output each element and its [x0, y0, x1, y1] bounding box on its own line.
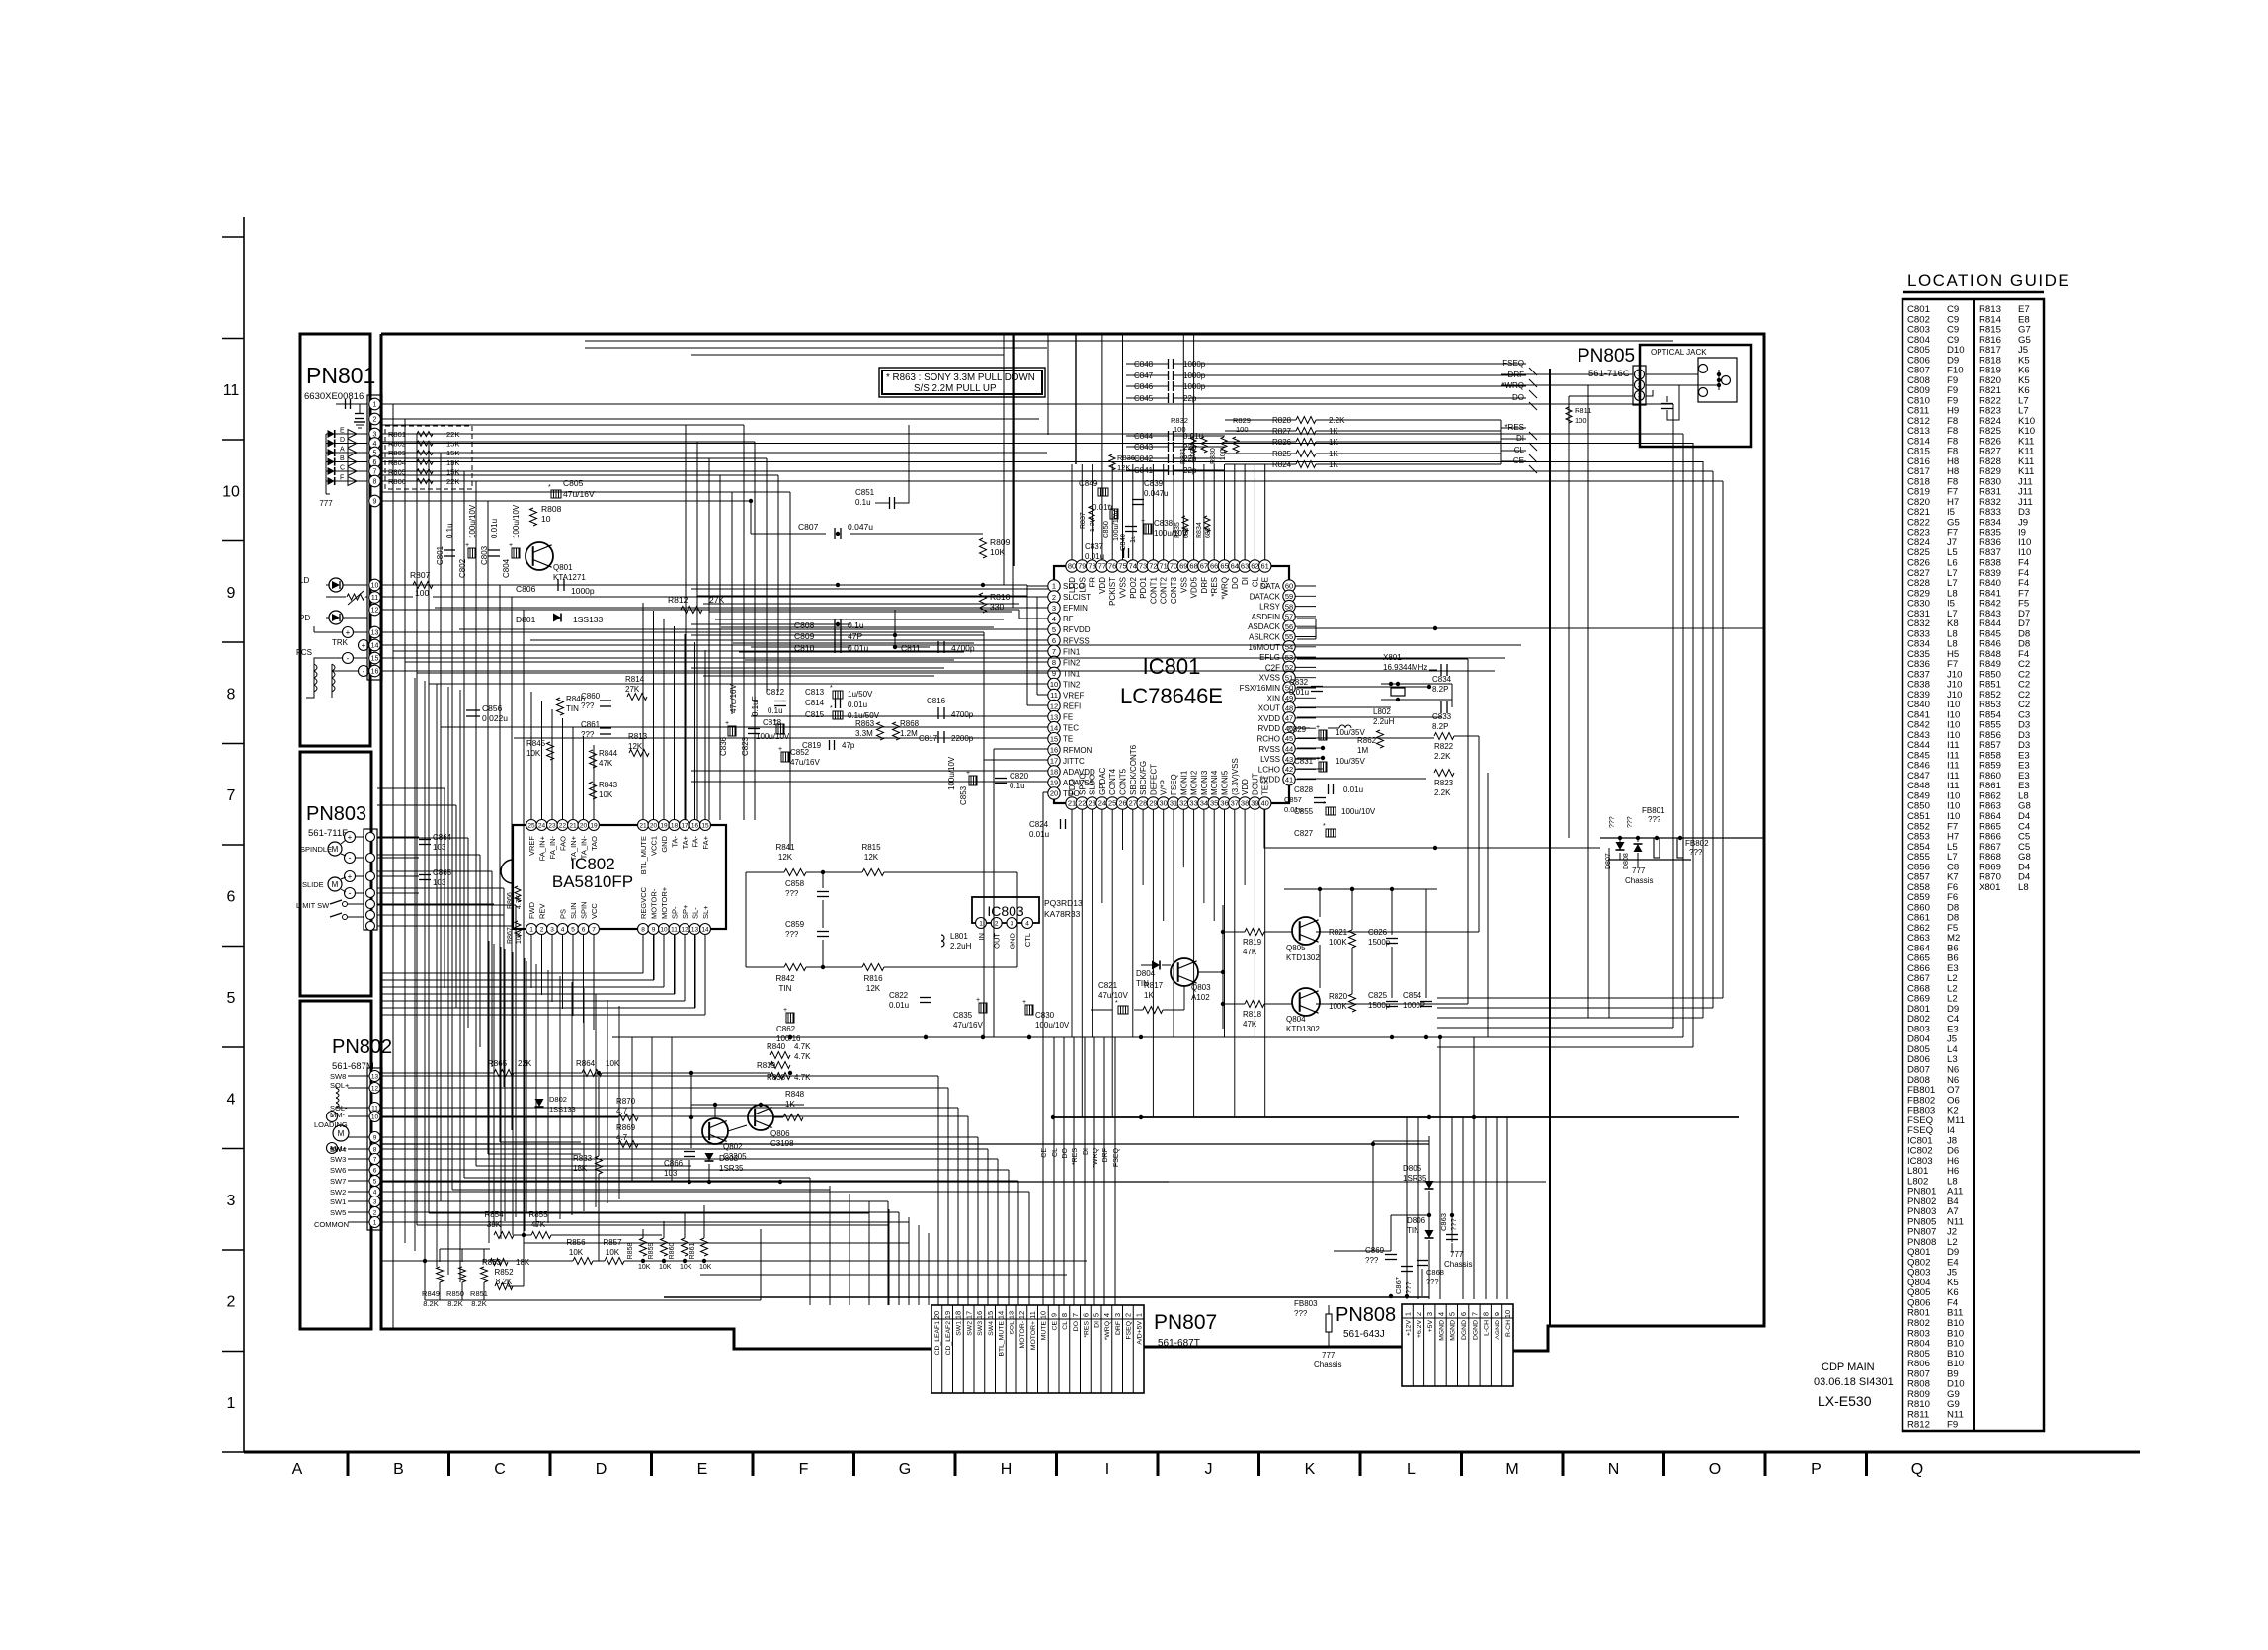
svg-text:4: 4: [373, 1189, 377, 1196]
svg-text:10K: 10K: [599, 790, 613, 799]
svg-text:2: 2: [995, 920, 999, 927]
resistor R834 680: [1204, 516, 1210, 532]
svg-text:17: 17: [681, 822, 688, 829]
capacitor C805 47u/16V: [551, 490, 561, 498]
svg-text:C827: C827: [1294, 829, 1314, 838]
optical jack lens circles: [1699, 365, 1708, 373]
svg-text:2: 2: [227, 1294, 236, 1311]
svg-text:A: A: [292, 1461, 303, 1478]
svg-text:R834: R834: [1196, 522, 1203, 538]
connector PN805 pins 1-3: [1635, 370, 1645, 379]
wire LD PD rows: [381, 584, 1027, 586]
svg-text:R809: R809: [990, 537, 1011, 547]
svg-text:80: 80: [1068, 562, 1076, 571]
resistor R819 47K: [1245, 929, 1264, 936]
svg-text:4.7K: 4.7K: [794, 1073, 811, 1082]
capacitor C833 8.2P: [1440, 701, 1442, 713]
svg-text:DRF: DRF: [1200, 577, 1209, 594]
svg-text:R823: R823: [1434, 779, 1454, 787]
svg-text:PN807: PN807: [1154, 1311, 1217, 1334]
svg-text:38: 38: [1241, 799, 1249, 808]
svg-text:R827: R827: [1272, 427, 1292, 436]
capacitor in optical jack: [1666, 396, 1668, 402]
svg-text:1: 1: [1052, 582, 1056, 591]
svg-text:0.01u: 0.01u: [1284, 805, 1303, 814]
svg-text:100: 100: [1190, 449, 1197, 460]
svg-text:C816: C816: [927, 697, 946, 705]
svg-text:18K: 18K: [516, 1258, 530, 1267]
wire IC802 top pins up: [530, 692, 532, 819]
resistor R863 3.3M: [877, 722, 884, 740]
wire R870 R869 rows: [381, 1116, 618, 1118]
optical jack box: [1640, 345, 1751, 447]
resistor R861 10K: [701, 1238, 708, 1256]
svg-text:9: 9: [373, 1134, 377, 1141]
svg-text:PQ3RD13: PQ3RD13: [1044, 898, 1083, 908]
svg-text:DI: DI: [1241, 577, 1250, 585]
svg-text:C829: C829: [1287, 725, 1307, 734]
svg-text:RVSS: RVSS: [1258, 745, 1280, 754]
svg-text:Q804: Q804: [1286, 1015, 1306, 1024]
wire FCS TRK rows: [381, 631, 984, 633]
svg-text:28: 28: [1139, 799, 1147, 808]
svg-text:71: 71: [1160, 562, 1168, 571]
svg-text:DO: DO: [1062, 1147, 1069, 1158]
svg-text:TE: TE: [1063, 735, 1073, 744]
svg-text:VDD: VDD: [1241, 779, 1250, 795]
svg-text:D808: D808: [1623, 853, 1630, 869]
capacitor C808 0.1u: [834, 619, 836, 630]
svg-text:+: +: [1316, 724, 1320, 731]
svg-text:C813: C813: [805, 688, 825, 697]
capacitor C817 2200p: [937, 731, 939, 743]
svg-text:1000P: 1000P: [1403, 1001, 1425, 1010]
svg-text:R841: R841: [775, 843, 795, 852]
svg-text:21: 21: [1068, 799, 1076, 808]
wire staircase rows bottom-left: [500, 1141, 581, 1143]
frame left ruler line: [243, 217, 245, 1452]
svg-text:C835: C835: [953, 1011, 973, 1020]
svg-text:C851: C851: [855, 488, 875, 497]
op-amp U IC802 body: [513, 825, 726, 929]
svg-text:16: 16: [691, 822, 699, 829]
wire right horizontals to audio: [1297, 618, 1316, 619]
coil TRK symbol: [331, 664, 333, 692]
capacitor C850 100u/10V: [1110, 509, 1118, 519]
capacitor C809 47P: [834, 629, 836, 641]
connector PN803 pin circles: [366, 833, 375, 842]
svg-text:17: 17: [964, 1311, 973, 1319]
svg-text:C845: C845: [1134, 394, 1154, 403]
svg-text:10K: 10K: [659, 1264, 672, 1271]
svg-text:14: 14: [1050, 723, 1058, 732]
svg-text:*RES: *RES: [1504, 423, 1524, 432]
svg-text:100: 100: [1575, 416, 1587, 425]
wire left vertical bundle: [392, 404, 394, 1329]
svg-text:100K: 100K: [1329, 1002, 1347, 1011]
svg-text:10: 10: [371, 583, 379, 590]
wire ground bus: [612, 1036, 1437, 1038]
svg-text:R819: R819: [1243, 938, 1262, 947]
svg-text:VDD: VDD: [1098, 577, 1107, 594]
capacitor C863 ???: [1446, 1234, 1458, 1236]
transistor Q805 KTD1302: [1292, 917, 1320, 945]
svg-text:C861: C861: [581, 720, 601, 729]
svg-text:10: 10: [541, 514, 551, 524]
svg-text:*RES: *RES: [1084, 1321, 1091, 1338]
svg-text:19: 19: [590, 822, 598, 829]
svg-text:CL: CL: [1251, 576, 1259, 587]
IC802 notch: [501, 860, 513, 883]
svg-text:13: 13: [691, 926, 699, 933]
svg-text:I: I: [1105, 1461, 1109, 1478]
svg-text:LC78646E: LC78646E: [1120, 684, 1223, 708]
svg-text:+: +: [778, 746, 782, 753]
svg-text:100u/10V: 100u/10V: [756, 732, 790, 741]
svg-text:Q802: Q802: [723, 1142, 743, 1151]
svg-text:54: 54: [1285, 643, 1293, 652]
svg-text:55: 55: [1285, 632, 1293, 641]
svg-text:*: *: [830, 705, 833, 712]
svg-text:10K: 10K: [526, 749, 541, 758]
capacitor at PN801 pin 1: [336, 403, 367, 405]
svg-text:R811: R811: [1575, 406, 1591, 415]
svg-text:TAO: TAO: [590, 836, 599, 851]
svg-text:C823: C823: [741, 736, 750, 756]
connector PN803 pin strip: [364, 829, 377, 930]
svg-text:R845: R845: [526, 739, 546, 748]
svg-text:MOTOR+: MOTOR+: [1030, 1321, 1037, 1350]
svg-text:6: 6: [1052, 636, 1056, 645]
svg-text:31: 31: [1170, 799, 1177, 808]
svg-text:CONT3: CONT3: [1170, 576, 1178, 604]
svg-text:DGND: DGND: [1461, 1320, 1468, 1340]
resistor R851 8.2K: [481, 1267, 488, 1282]
svg-text:MUTE: MUTE: [1041, 1321, 1048, 1341]
svg-text:???: ???: [1294, 1309, 1308, 1318]
svg-text:561-687T: 561-687T: [1158, 1338, 1200, 1349]
svg-text:SW3: SW3: [977, 1321, 984, 1336]
svg-text:0.022u: 0.022u: [482, 713, 508, 723]
svg-text:R853: R853: [482, 1258, 502, 1267]
svg-text:6: 6: [227, 889, 236, 906]
svg-text:21: 21: [569, 822, 577, 829]
svg-text:C848: C848: [1134, 360, 1154, 369]
svg-text:10: 10: [1039, 1311, 1048, 1319]
svg-text:777: 777: [319, 499, 333, 508]
svg-text:SW5: SW5: [330, 1208, 346, 1217]
svg-text:61: 61: [1261, 562, 1269, 571]
svg-text:+: +: [783, 1007, 787, 1014]
svg-text:TA_IN+: TA_IN+: [569, 835, 578, 861]
svg-text:FA+: FA+: [701, 835, 710, 849]
svg-text:6: 6: [1459, 1312, 1468, 1316]
svg-text:1000p: 1000p: [1183, 360, 1206, 369]
svg-text:FAO: FAO: [559, 836, 568, 851]
svg-text:K: K: [1305, 1461, 1316, 1478]
svg-text:1000p: 1000p: [571, 586, 595, 596]
svg-text:R829: R829: [1233, 416, 1251, 425]
svg-text:C857: C857: [1284, 795, 1302, 804]
svg-text:18: 18: [1050, 768, 1058, 777]
connector PN801 pin strip: [367, 395, 382, 680]
svg-text:561-643J: 561-643J: [1343, 1329, 1385, 1340]
svg-text:20: 20: [1050, 789, 1058, 798]
svg-text:R852: R852: [494, 1268, 514, 1277]
svg-text:C843: C843: [1134, 443, 1154, 452]
wire IC802 top-right pins up: [642, 603, 644, 819]
svg-text:74: 74: [1129, 562, 1137, 571]
svg-text:7: 7: [373, 1156, 377, 1163]
capacitor to ground at PN801 pin 2: [359, 404, 361, 413]
diode D802 1SS133: [535, 1099, 544, 1107]
location guide table divider: [1973, 299, 1975, 1431]
wire C821 R817 row: [1091, 1009, 1112, 1011]
svg-text:Chassis: Chassis: [1625, 876, 1653, 885]
svg-text:59: 59: [1285, 592, 1293, 601]
svg-text:CE: CE: [1041, 1148, 1048, 1158]
optical jack inner box: [1698, 358, 1737, 402]
svg-text:36: 36: [1220, 799, 1228, 808]
svg-text:D802: D802: [549, 1095, 567, 1104]
svg-text:FB802: FB802: [1685, 839, 1709, 848]
resistor R821 100K: [1349, 930, 1356, 948]
svg-text:9: 9: [373, 499, 377, 506]
svg-text:G: G: [899, 1461, 911, 1478]
svg-text:SL+: SL+: [701, 905, 710, 919]
svg-text:SW3: SW3: [330, 1155, 346, 1164]
svg-text:15K: 15K: [446, 449, 459, 457]
connector PN808 box: [1402, 1304, 1513, 1386]
wires FB801 block: [1600, 837, 1764, 839]
svg-text:-: -: [349, 888, 352, 898]
svg-text:+: +: [1022, 999, 1026, 1006]
svg-text:TIN: TIN: [566, 704, 579, 713]
svg-text:15: 15: [701, 822, 709, 829]
svg-text:ASDFIN: ASDFIN: [1252, 613, 1281, 621]
svg-text:Q805: Q805: [1286, 944, 1306, 952]
svg-text:16: 16: [371, 669, 379, 676]
svg-text:MOTOR-: MOTOR-: [650, 888, 659, 919]
svg-text:43: 43: [1285, 755, 1293, 764]
svg-text:12: 12: [1017, 1311, 1026, 1319]
svg-text:B: B: [340, 455, 345, 462]
svg-text:4.7K: 4.7K: [794, 1042, 811, 1051]
svg-text:SOL+: SOL+: [330, 1081, 350, 1090]
wire IC801 bottom pin verticals: [1071, 809, 1073, 1037]
svg-text:VSS: VSS: [1179, 577, 1188, 593]
resistor R853 18K: [490, 1259, 508, 1266]
svg-text:TIN: TIN: [1136, 979, 1149, 988]
svg-text:47u/16V: 47u/16V: [953, 1021, 983, 1030]
svg-text:67: 67: [1200, 562, 1208, 571]
op-amp U IC801 body: [1054, 566, 1289, 803]
svg-text:18K: 18K: [573, 1164, 588, 1173]
svg-text:1: 1: [373, 1219, 377, 1226]
transistor Q801 KTA1271: [526, 542, 553, 570]
resistor R814 27K: [627, 694, 647, 701]
svg-text:???: ???: [1689, 848, 1703, 857]
transistor Q802 C3205: [702, 1118, 728, 1144]
svg-text:12: 12: [371, 608, 379, 615]
capacitor C831 10u/35V: [1319, 762, 1327, 772]
svg-text:34: 34: [1200, 799, 1208, 808]
svg-text:0.1u: 0.1u: [1010, 782, 1025, 790]
svg-text:10K: 10K: [606, 1248, 620, 1257]
svg-text:R814: R814: [625, 675, 645, 684]
svg-text:COMMON: COMMON: [314, 1220, 349, 1229]
svg-text:C852: C852: [790, 748, 810, 757]
svg-text:???: ???: [1627, 816, 1634, 828]
svg-text:PN802: PN802: [332, 1036, 392, 1058]
svg-text:41: 41: [1285, 775, 1293, 784]
svg-text:10: 10: [1503, 1310, 1512, 1318]
svg-text:D804: D804: [1136, 969, 1156, 978]
svg-text:20: 20: [580, 822, 588, 829]
resistor R870 4.7: [618, 1114, 638, 1121]
svg-text:13: 13: [371, 1073, 379, 1080]
svg-text:25: 25: [527, 822, 535, 829]
svg-text:C840: C840: [1118, 534, 1127, 551]
resistor R807 100: [413, 582, 433, 589]
svg-text:L8: L8: [2018, 882, 2029, 893]
op-amp U IC803 body: [972, 897, 1039, 923]
svg-text:1000p: 1000p: [1183, 382, 1206, 391]
svg-text:VCC: VCC: [590, 903, 599, 919]
svg-text:E: E: [340, 428, 345, 435]
svg-text:5: 5: [227, 990, 236, 1007]
svg-text:8: 8: [1482, 1312, 1491, 1316]
svg-text:12K: 12K: [864, 853, 879, 862]
svg-text:CE: CE: [1261, 577, 1270, 588]
svg-text:39: 39: [1251, 799, 1258, 808]
svg-text:C802: C802: [458, 558, 467, 578]
svg-text:C841: C841: [1134, 466, 1154, 475]
capacitor C823 0.1uF: [748, 728, 760, 730]
svg-text:MOTOR-: MOTOR-: [1019, 1321, 1026, 1348]
svg-text:+5V: +5V: [1427, 1320, 1434, 1333]
svg-text:100u/10V: 100u/10V: [1154, 529, 1188, 537]
capacitor C806 1000p: [557, 579, 559, 591]
svg-text:ASDACK: ASDACK: [1248, 622, 1281, 631]
svg-text:22: 22: [559, 822, 567, 829]
svg-text:LOCATION GUIDE: LOCATION GUIDE: [1907, 271, 2070, 289]
wire IC802 bottom pins down: [530, 935, 532, 988]
wire SW resistor rows: [381, 1260, 573, 1262]
wire vertical bundle center-left: [685, 425, 687, 820]
connector PN802 box: [300, 1001, 371, 1329]
svg-text:SP+: SP+: [681, 904, 689, 919]
svg-text:10K: 10K: [680, 1264, 692, 1271]
svg-text:5: 5: [571, 926, 575, 933]
svg-text:1500p: 1500p: [1368, 1001, 1391, 1010]
IC802 pins 8-14 bottom-right: [638, 924, 649, 935]
svg-text:44: 44: [1285, 745, 1293, 754]
wire bus into IC801 left pins: [1027, 585, 1048, 587]
svg-text:56: 56: [1285, 622, 1293, 631]
svg-text:TIN: TIN: [779, 984, 792, 993]
capacitor C867 ???: [1401, 1266, 1413, 1268]
svg-text:FSEQ: FSEQ: [1126, 1321, 1133, 1340]
photodiode at PD: [329, 611, 343, 624]
svg-text:77: 77: [1098, 562, 1106, 571]
svg-text:5: 5: [1052, 625, 1056, 634]
svg-text:8.2P: 8.2P: [1432, 685, 1448, 694]
svg-text:R862: R862: [1357, 736, 1377, 745]
location guide title underline: [1903, 291, 2044, 294]
svg-text:LD: LD: [299, 576, 309, 585]
svg-text:0.01u: 0.01u: [490, 519, 499, 538]
svg-text:21: 21: [639, 822, 647, 829]
svg-text:66: 66: [1210, 562, 1218, 571]
svg-text:1: 1: [373, 402, 377, 409]
svg-text:FSEQ: FSEQ: [1113, 1147, 1120, 1167]
svg-text:M: M: [1505, 1461, 1518, 1478]
svg-text:SW2: SW2: [966, 1321, 973, 1336]
svg-text:N: N: [1608, 1461, 1620, 1478]
svg-text:24: 24: [538, 822, 546, 829]
svg-text:3: 3: [373, 1198, 377, 1205]
svg-text:C807: C807: [798, 522, 819, 532]
svg-text:D: D: [596, 1461, 607, 1478]
svg-text:CONT4: CONT4: [1108, 768, 1117, 795]
svg-text:???: ???: [1449, 1218, 1458, 1231]
svg-text:C805: C805: [563, 478, 584, 488]
capacitor C849 0.01u: [1098, 488, 1108, 496]
svg-text:7: 7: [1470, 1312, 1479, 1316]
svg-text:8.2P: 8.2P: [1432, 722, 1448, 731]
svg-text:CL: CL: [1062, 1321, 1069, 1330]
frame left ruler ticks: [222, 338, 244, 340]
svg-text:AGND: AGND: [1495, 1320, 1501, 1340]
resistor R822 2.2K: [1434, 733, 1454, 740]
svg-text:C850: C850: [1101, 521, 1110, 538]
svg-text:+: +: [1141, 518, 1145, 525]
svg-text:8: 8: [641, 926, 645, 933]
svg-text:R804: R804: [388, 458, 406, 467]
ferrite bead FB802: [1677, 838, 1683, 858]
capacitor C868 ???: [1417, 1260, 1428, 1262]
svg-text:78: 78: [1088, 562, 1095, 571]
svg-text:R864: R864: [576, 1059, 596, 1068]
svg-text:2: 2: [373, 417, 377, 424]
svg-text:DATACK: DATACK: [1250, 592, 1281, 601]
svg-text:18: 18: [671, 822, 679, 829]
svg-text:D: D: [340, 437, 345, 444]
resistor R850 8.2K: [459, 1267, 466, 1282]
svg-text:25: 25: [1108, 799, 1116, 808]
svg-text:R861: R861: [689, 1243, 696, 1260]
coil FCS symbol: [313, 664, 315, 692]
svg-text:C854: C854: [1403, 991, 1422, 1000]
svg-text:R832: R832: [1171, 416, 1188, 425]
svg-text:C830: C830: [1035, 1011, 1055, 1020]
svg-text:12K: 12K: [1117, 463, 1130, 472]
spindle motor symbol: [328, 842, 342, 856]
IC801 pins 1-20 left: [1048, 580, 1060, 592]
svg-text:1000p: 1000p: [1183, 371, 1206, 380]
svg-text:47p: 47p: [842, 741, 855, 750]
IC802 pins top-right group: [638, 820, 649, 831]
wire horizontal band left of IC801: [691, 588, 1048, 590]
wire D805 D806 column: [1428, 1136, 1430, 1181]
location guide table box: [1903, 299, 2044, 1431]
svg-text:FA-: FA-: [691, 836, 700, 848]
svg-text:100u/10V: 100u/10V: [512, 504, 521, 538]
svg-text:FE: FE: [1063, 713, 1073, 722]
svg-text:3: 3: [1425, 1312, 1434, 1316]
wire R864 row: [381, 1072, 494, 1074]
